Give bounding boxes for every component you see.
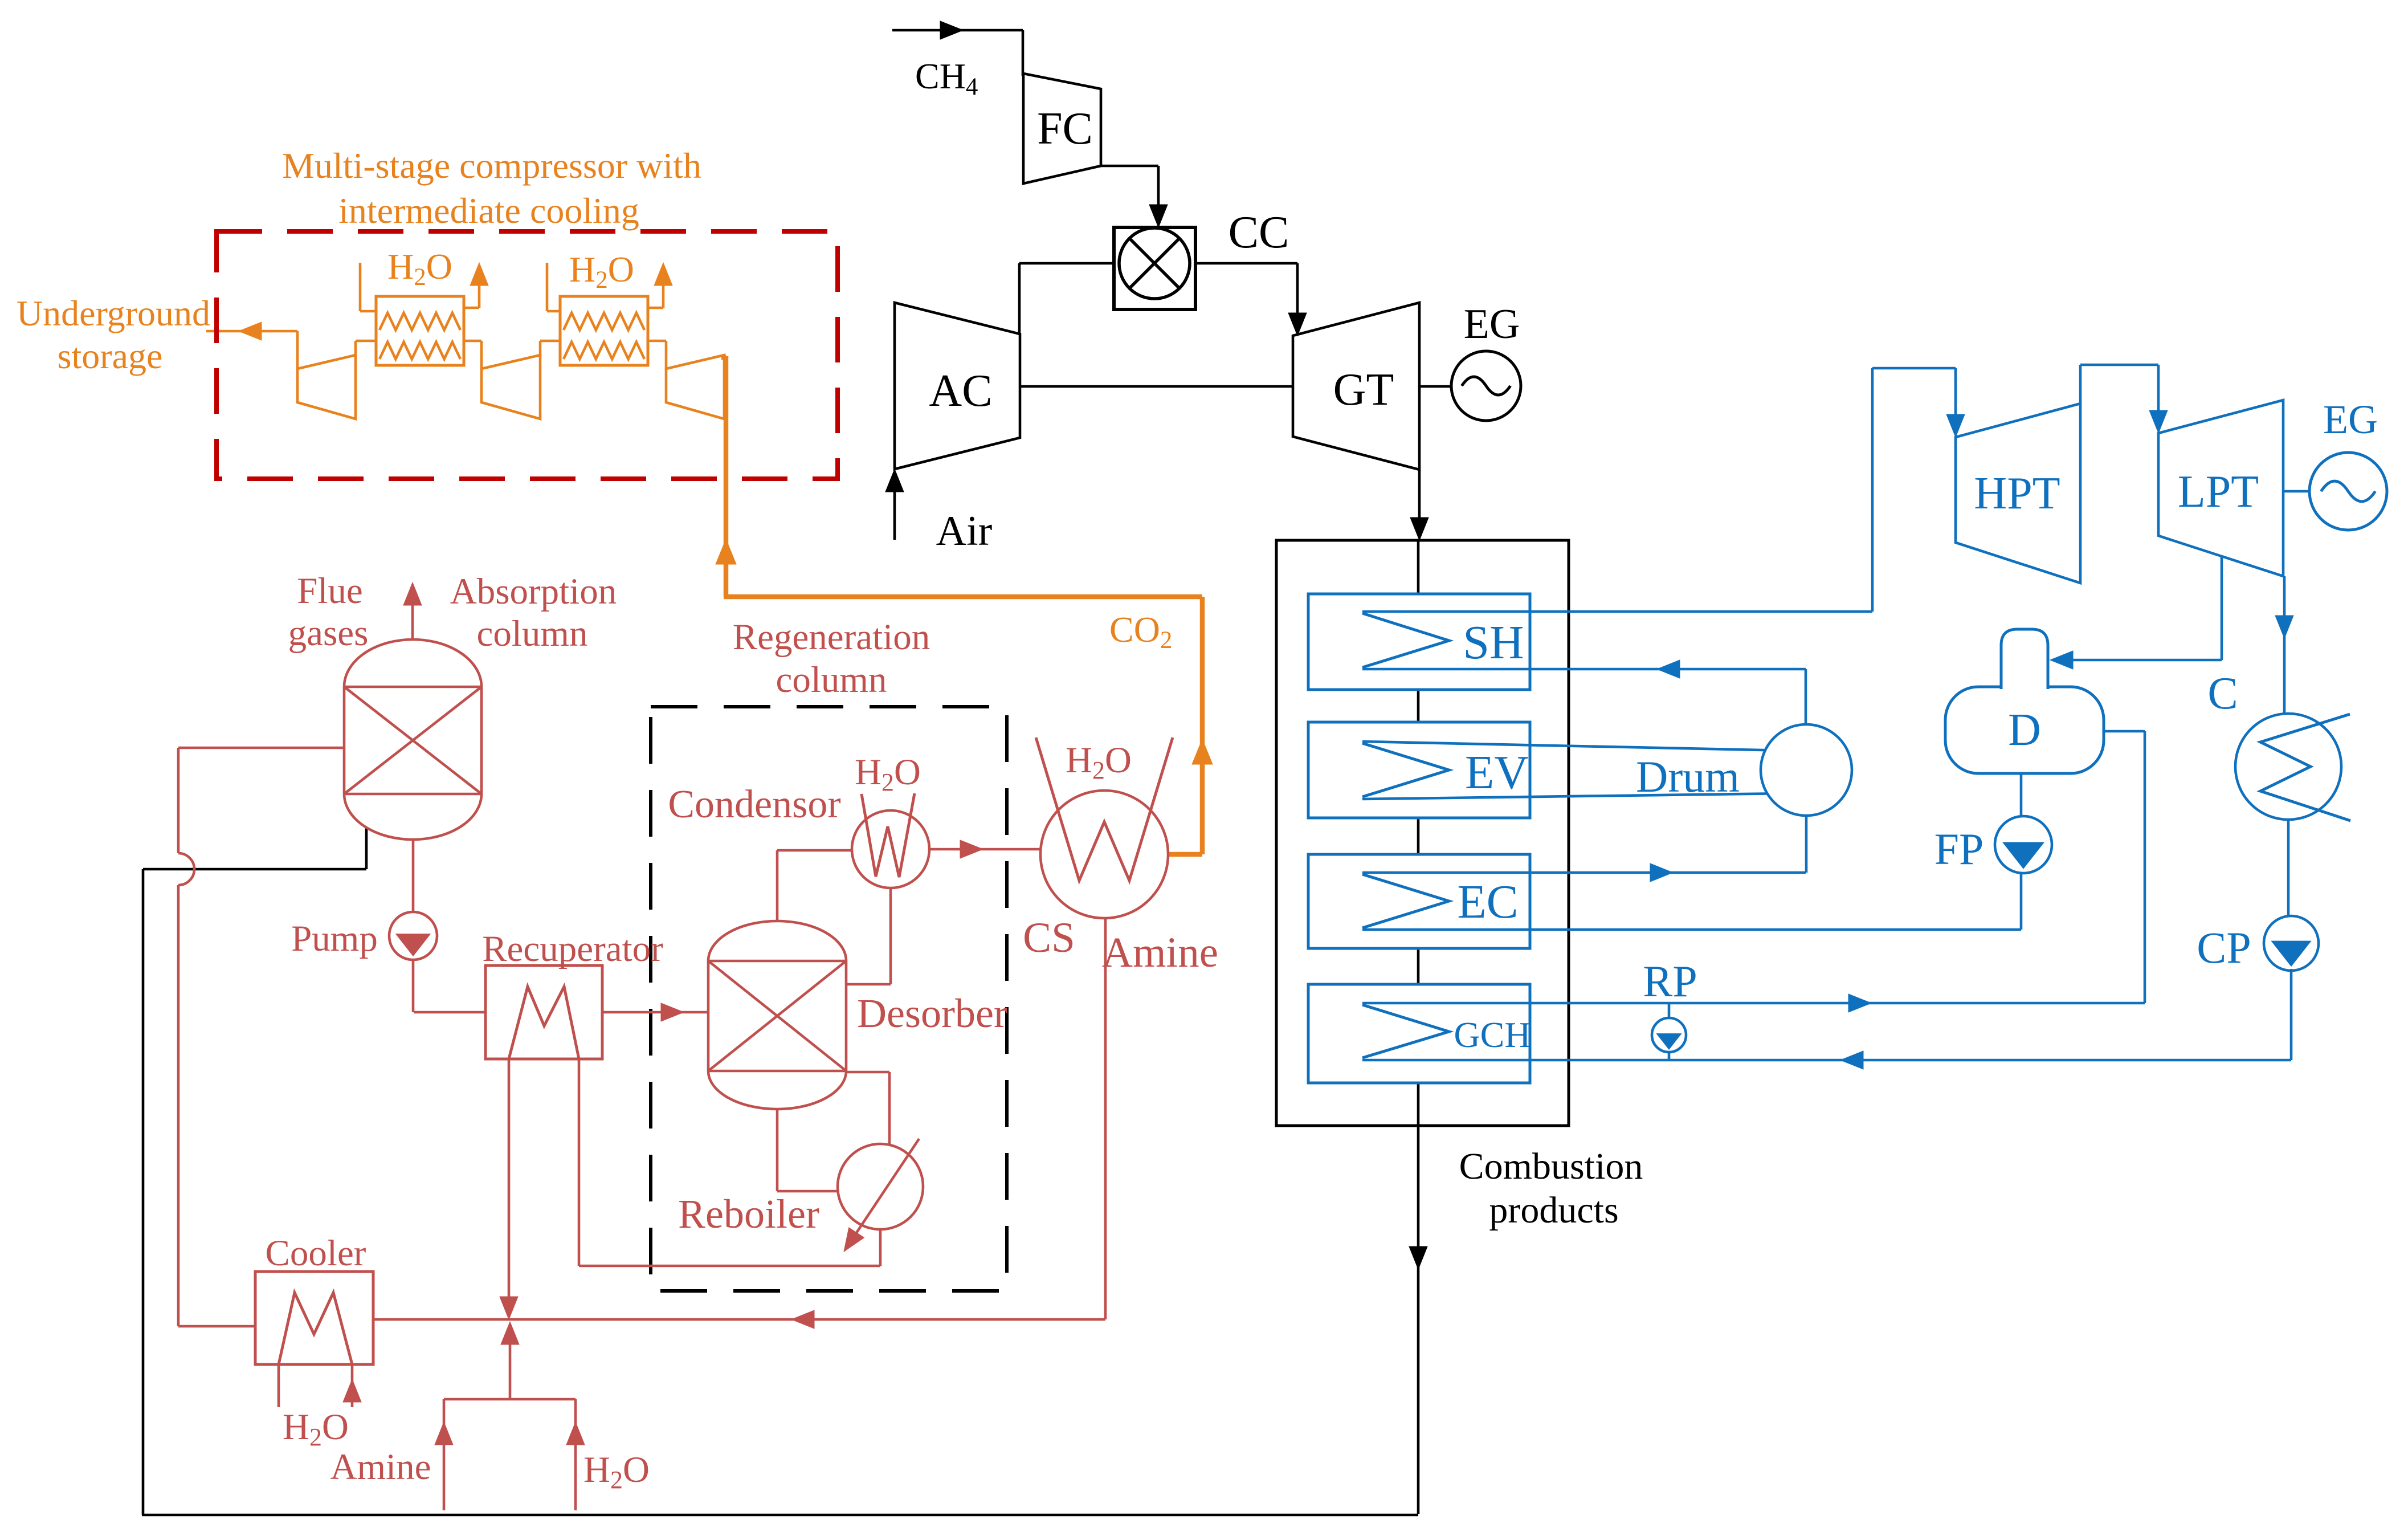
svg-text:CS: CS	[1023, 914, 1075, 961]
svg-text:Reboiler: Reboiler	[678, 1191, 819, 1237]
svg-text:CP: CP	[2197, 923, 2251, 972]
svg-text:FP: FP	[1934, 824, 1984, 874]
svg-text:gases: gases	[288, 613, 369, 654]
svg-text:EC: EC	[1457, 875, 1518, 928]
svg-text:Desorber: Desorber	[857, 991, 1007, 1036]
svg-text:HPT: HPT	[1974, 468, 2060, 519]
svg-text:GT: GT	[1333, 365, 1394, 415]
svg-text:Amine: Amine	[1102, 929, 1218, 976]
svg-text:column: column	[477, 613, 588, 654]
svg-text:D: D	[2008, 705, 2041, 755]
svg-text:Multi-stage compressor with: Multi-stage compressor with	[282, 145, 701, 186]
svg-text:LPT: LPT	[2178, 467, 2259, 517]
svg-text:Combustion: Combustion	[1459, 1146, 1643, 1187]
svg-text:Regeneration: Regeneration	[733, 617, 930, 658]
svg-text:intermediate cooling: intermediate cooling	[338, 190, 639, 231]
svg-text:Amine: Amine	[330, 1447, 431, 1488]
svg-text:storage: storage	[58, 336, 163, 376]
svg-text:CC: CC	[1229, 207, 1289, 258]
svg-text:Recuperator: Recuperator	[482, 928, 663, 969]
svg-text:Condensor: Condensor	[668, 783, 840, 826]
svg-text:Cooler: Cooler	[266, 1233, 366, 1274]
svg-text:Drum: Drum	[1636, 752, 1740, 801]
svg-text:AC: AC	[929, 366, 992, 416]
svg-text:products: products	[1489, 1189, 1618, 1231]
svg-text:Air: Air	[936, 508, 993, 555]
svg-text:FC: FC	[1037, 104, 1093, 154]
svg-text:C: C	[2207, 669, 2238, 719]
svg-text:Absorption: Absorption	[450, 571, 617, 612]
svg-text:Flue: Flue	[297, 571, 363, 612]
svg-text:EG: EG	[1464, 301, 1520, 348]
svg-text:Underground: Underground	[17, 293, 210, 333]
svg-text:EG: EG	[2323, 397, 2378, 442]
svg-text:column: column	[776, 659, 887, 700]
svg-text:GCH: GCH	[1454, 1015, 1530, 1055]
svg-text:RP: RP	[1643, 956, 1697, 1006]
svg-text:Pump: Pump	[291, 918, 378, 959]
svg-text:SH: SH	[1463, 616, 1524, 669]
svg-text:EV: EV	[1465, 746, 1529, 799]
